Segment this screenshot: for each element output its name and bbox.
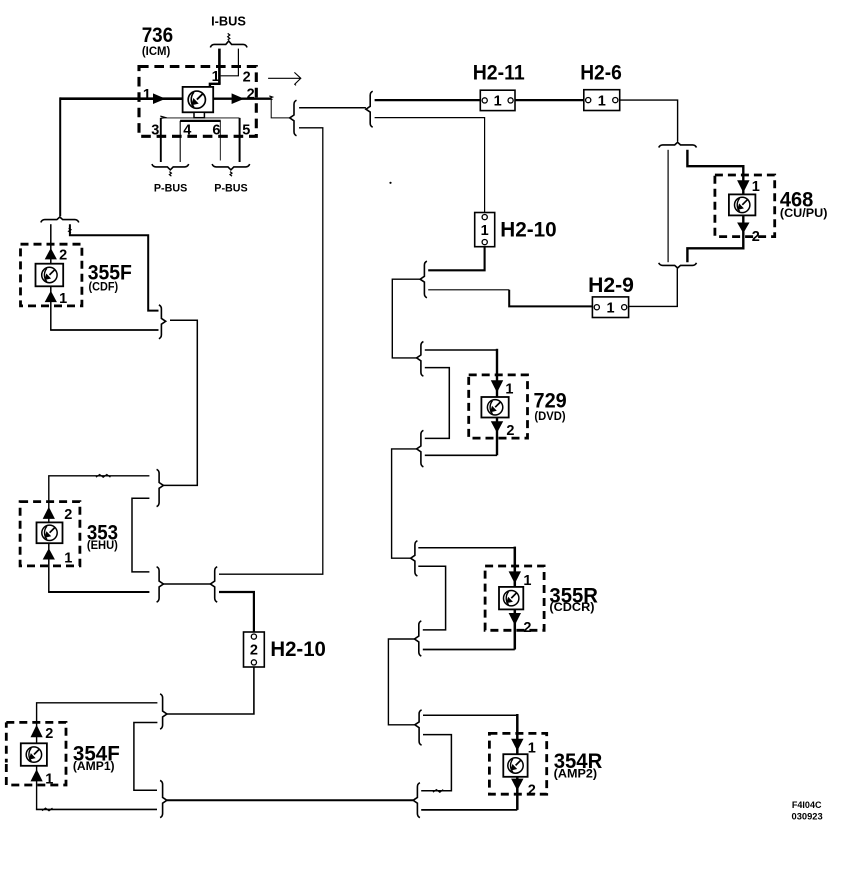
svg-text:(AMP1): (AMP1): [73, 761, 115, 773]
wire 355F pin 2 feed: [50, 224, 52, 264]
arrow 354F pin 1: [31, 769, 43, 781]
arrow 355F pin 1: [45, 291, 57, 302]
inner unit box U355F: [36, 264, 64, 287]
wire H2-11 to H2-6: [515, 99, 584, 101]
wire left rail to 355F bracket: [59, 97, 61, 216]
media unit icon 354R: [508, 758, 523, 773]
wire pin 5: [239, 118, 241, 162]
svg-text:(CDCR): (CDCR): [549, 602, 594, 614]
arrow 468 pin 2: [737, 223, 749, 234]
inner unit box U354R: [503, 754, 527, 777]
svg-text:2: 2: [506, 423, 514, 439]
svg-text:1: 1: [523, 573, 531, 589]
stray dot: [389, 182, 391, 184]
wire pin 3: [160, 118, 162, 162]
arrow 354R pin 2: [511, 779, 523, 791]
svg-text:030923: 030923: [792, 811, 823, 821]
wire 355R pin 2 to brace BE: [514, 609, 517, 649]
wire rail brace BC to brace BD: [392, 449, 417, 558]
arrow into ICM pin 1: [153, 93, 166, 104]
wire H2-9 to bottom bracket: [629, 268, 678, 306]
media unit icon 355F: [42, 267, 57, 282]
svg-text:H2-10: H2-10: [500, 219, 556, 242]
connector H2-9: [592, 297, 628, 318]
svg-text:1: 1: [143, 87, 151, 103]
wire ICM pin 2 out: [213, 97, 271, 99]
svg-text:6: 6: [212, 123, 220, 139]
connector H2-6: [584, 90, 620, 111]
wire brace BB to 729 pin 1 h: [425, 349, 497, 351]
wire 468 pin 2 out: [687, 215, 743, 262]
svg-text:1: 1: [505, 382, 513, 398]
wire I-BUS wire B jog: [221, 75, 239, 77]
wire ladder BL-BM: [134, 723, 158, 791]
svg-text:2: 2: [64, 507, 72, 523]
wire step down to brace B1: [271, 98, 289, 118]
svg-text:1: 1: [45, 771, 53, 787]
svg-text:1: 1: [752, 179, 760, 195]
wire 468 bracket left pass: [667, 150, 669, 262]
media unit icon 353: [42, 525, 57, 540]
inline connector brace BD: [411, 541, 418, 576]
inner unit box U353: [37, 522, 63, 543]
tick mark thin bus left end: [160, 116, 165, 119]
wire brace BH to brace BI: [163, 320, 197, 485]
connector H2-10 upper: [475, 213, 495, 247]
arrow 353 pin 2: [43, 507, 55, 519]
wire P-BUS thin bus bar: [161, 117, 240, 119]
wire ladder BD-BE: [418, 566, 445, 630]
media unit icon 729: [487, 400, 502, 415]
media unit icon 736: [188, 91, 205, 108]
inner unit box U736: [183, 87, 214, 112]
svg-text:2: 2: [247, 86, 255, 102]
tick mark I-BUS stem: [228, 33, 230, 39]
inline connector brace BH: [159, 305, 166, 339]
wire 729 pin 2 to brace BC: [496, 418, 498, 456]
wire pin 4: [179, 121, 181, 162]
svg-text:1: 1: [212, 69, 220, 85]
media unit icon 468: [735, 197, 750, 212]
736 connector stub: [194, 112, 204, 117]
wire central return rail: [219, 128, 323, 574]
svg-text:(DVD): (DVD): [534, 411, 565, 423]
media unit icon 354F: [26, 747, 41, 762]
inline connector brace BL: [160, 694, 167, 729]
svg-text:3: 3: [151, 123, 159, 139]
wire I-BUS wire B: [237, 49, 239, 76]
arrow 729 pin 2: [491, 421, 503, 433]
inline connector brace BA: [420, 261, 427, 298]
wire 353 pin 1 out: [48, 543, 50, 592]
tick mark BG ladder mark: [433, 790, 443, 793]
tick mark 354F out mark: [42, 808, 53, 811]
component dashed box 729 DVD: [469, 375, 528, 438]
inline connector brace BJ: [157, 567, 164, 602]
svg-text:1: 1: [59, 291, 67, 307]
svg-text:(EHU): (EHU): [87, 540, 118, 552]
svg-text:1: 1: [598, 93, 606, 109]
wire 353 pin 2 feed: [49, 476, 150, 523]
wire ladder BB-BC: [425, 368, 450, 439]
component dashed box 354F AMP1: [6, 722, 66, 785]
cable bracket I-BUS: [210, 41, 247, 47]
svg-text:P-BUS: P-BUS: [214, 183, 247, 195]
svg-text:2: 2: [59, 247, 67, 263]
wire 354F pin 2 feed: [37, 703, 158, 744]
wire ladder BF-BG: [421, 735, 451, 791]
wire rail brace BA to brace BB: [392, 279, 420, 358]
component dashed box 468 CU/PU: [715, 175, 775, 237]
tick mark 353 feed mark: [96, 475, 110, 478]
component dashed box 355F CDF: [21, 244, 82, 306]
wire 468 pin 1 feed: [687, 150, 743, 195]
wire I-BUS wire A: [218, 49, 221, 84]
inline connector brace B1: [290, 100, 297, 136]
svg-text:I-BUS: I-BUS: [211, 14, 246, 29]
wire 355R pin 2 to brace BE h: [423, 649, 515, 651]
svg-text:2: 2: [45, 726, 53, 742]
tick mark P-BUS stem right: [230, 172, 232, 177]
wire 729 pin 2 to brace BC h: [425, 454, 497, 456]
wire P-BUS thick bus bar: [180, 120, 221, 122]
svg-text:(AMP2): (AMP2): [554, 769, 598, 781]
wire brace BD to 355R pin 1 h: [418, 547, 515, 549]
inner unit box U354F: [21, 743, 47, 766]
inline connector brace BB: [417, 342, 424, 377]
inner unit box U355R: [499, 587, 523, 610]
tick mark P-BUS stem left: [169, 172, 171, 177]
svg-text:H2-10: H2-10: [270, 638, 326, 661]
svg-text:2: 2: [528, 782, 536, 798]
wire brace BA to H2-9 h: [428, 289, 509, 291]
connector H2-11: [480, 90, 515, 110]
wire H2-6 to top bracket: [620, 100, 678, 141]
wire H2-10 lower to brace BL: [167, 667, 254, 714]
svg-text:2: 2: [523, 620, 531, 636]
wire brace B2 to H2-11: [375, 99, 481, 101]
component dashed box 736 ICM: [139, 67, 256, 137]
inline connector brace BM: [160, 780, 167, 817]
tick mark ICM pin2 end: [269, 96, 272, 100]
svg-text:H2-11: H2-11: [473, 61, 525, 84]
inline connector brace BG: [413, 783, 420, 818]
tick mark 355F branch mark: [69, 228, 71, 233]
inner unit box U468: [729, 194, 756, 215]
wire bottom bus BM to BG: [167, 799, 413, 801]
inline connector brace BI: [157, 469, 164, 506]
cable bracket 355F top: [41, 217, 79, 222]
wire brace BD to 355R pin 1: [514, 547, 517, 587]
wire brace B1 to brace B2: [299, 107, 366, 109]
arrow 354F pin 2: [31, 725, 43, 737]
connector H2-10 lower: [244, 632, 265, 667]
wire brace BJ to brace BK: [163, 583, 210, 585]
arrow out of ICM pin 2: [232, 93, 245, 104]
component dashed box 353 EHU: [20, 502, 80, 566]
inline connector brace BF: [415, 710, 422, 745]
inline connector brace B2: [366, 91, 373, 127]
wire brace BK to H2-10 lower: [219, 592, 254, 632]
svg-text:736: 736: [142, 24, 174, 47]
wire 355F pin 1 out: [50, 286, 52, 330]
svg-text:2: 2: [752, 229, 760, 245]
svg-text:1: 1: [481, 223, 489, 239]
arrow 468 pin 1: [737, 180, 749, 192]
svg-text:F4I04C: F4I04C: [792, 800, 822, 810]
wire 354F pin 1 out h: [36, 808, 157, 810]
svg-text:H2-6: H2-6: [580, 61, 622, 84]
wire 355F pin 1 out h: [50, 329, 158, 331]
svg-text:1: 1: [494, 94, 502, 110]
arrow 355R pin 2: [509, 613, 521, 625]
component dashed box 354R AMP2: [489, 733, 546, 794]
svg-text:4: 4: [183, 123, 191, 139]
wire brace BB to 729 pin 1: [496, 349, 498, 397]
svg-text:1: 1: [606, 300, 614, 316]
arrow 355F pin 2: [45, 248, 57, 259]
svg-text:1: 1: [528, 741, 536, 757]
svg-text:P-BUS: P-BUS: [154, 183, 187, 195]
inner unit box U729: [481, 397, 508, 418]
wire brace BA to H2-9: [509, 290, 592, 307]
wire 354F pin 1 out: [36, 766, 38, 810]
cable bracket P-BUS right: [212, 164, 250, 170]
arrow 355R pin 1: [509, 571, 521, 583]
wire 353 pin 1 out h: [48, 591, 149, 593]
arrow 729 pin 1: [491, 380, 503, 392]
wire 354R pin 2 to brace BG h: [421, 809, 517, 811]
wire 354R pin 2 to brace BG: [516, 777, 519, 810]
inline connector brace BC: [417, 430, 424, 467]
wire brace BF to 354R pin 1: [516, 714, 519, 754]
arrow 353 pin 1: [43, 548, 55, 559]
component dashed box 355R CDCR: [485, 566, 544, 630]
svg-text:(CU/PU): (CU/PU): [780, 208, 828, 220]
continuation arrow: [268, 72, 301, 85]
svg-text:(CDF): (CDF): [89, 282, 119, 294]
arrow 354R pin 1: [511, 739, 523, 751]
svg-text:(ICM): (ICM): [142, 46, 171, 58]
inline connector brace BE: [415, 621, 422, 656]
svg-text:2: 2: [250, 643, 258, 659]
wire ladder BI-BJ: [132, 498, 149, 572]
wire branch to brace BH: [70, 224, 159, 310]
svg-text:729: 729: [534, 389, 567, 412]
wire ICM pin 1 feed: [60, 97, 182, 100]
wire brace B2 to H2-10 upper: [375, 118, 485, 213]
inline connector brace BK: [210, 567, 217, 602]
wire rail brace BE to brace BF: [388, 639, 414, 725]
media unit icon 355R: [504, 591, 519, 606]
wire brace BF to 354R pin 1 h: [423, 714, 517, 716]
cable bracket 468 bottom: [659, 263, 697, 268]
wire H2-10 upper to brace BA: [428, 247, 484, 271]
wire pin 6: [219, 121, 221, 161]
wire I-BUS wire A jog: [210, 84, 221, 87]
cable bracket 468 top: [659, 142, 697, 147]
svg-text:1: 1: [64, 551, 72, 567]
svg-text:5: 5: [242, 123, 250, 139]
svg-text:2: 2: [243, 70, 251, 86]
cable bracket P-BUS left: [152, 164, 189, 170]
svg-text:H2-9: H2-9: [588, 274, 634, 297]
